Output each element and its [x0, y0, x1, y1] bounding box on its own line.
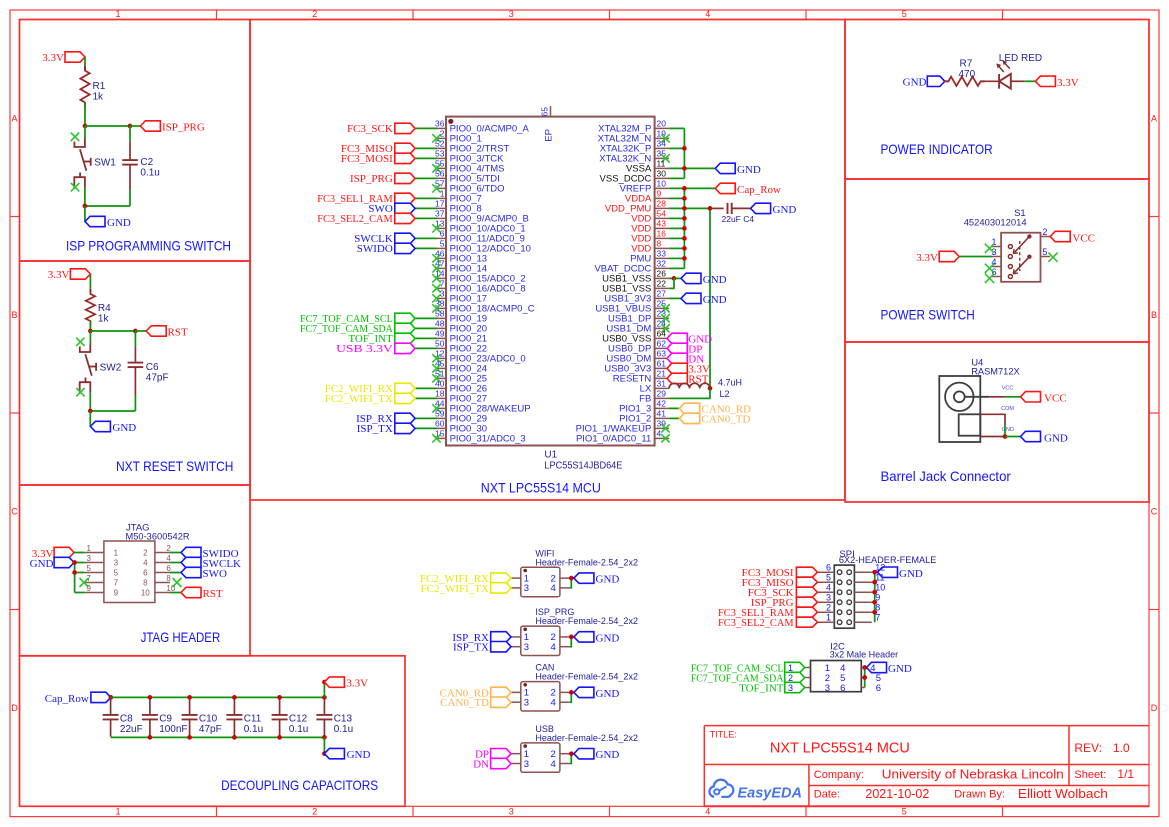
U1 pin 50 PIO0_22 [336, 339, 487, 356]
net flag ISP_PRG [140, 121, 204, 134]
svg-text:14: 14 [435, 269, 445, 279]
svg-text:GND: GND [112, 422, 136, 434]
S1 pin 1 [991, 237, 1012, 249]
U1 pin 28 VDD_PMU [605, 199, 797, 224]
wire GND to R7 [945, 80, 949, 82]
svg-text:3x2 Male Header: 3x2 Male Header [830, 650, 899, 661]
svg-text:Header-Female-2.54_2x2: Header-Female-2.54_2x2 [535, 672, 638, 682]
svg-text:EP: EP [544, 129, 555, 142]
I2C pin 3 TOF_INT [739, 682, 830, 694]
U1 pin 65 EP [540, 106, 555, 141]
svg-text:Header-Female-2.54_2x2: Header-Female-2.54_2x2 [535, 733, 638, 743]
U1 pin 52 PIO0_2/TRST [341, 139, 510, 156]
svg-text:1: 1 [87, 544, 92, 553]
U1 pin 56 PIO0_5/TDI [350, 169, 500, 186]
U1 pin 59 PIO0_29 [356, 409, 487, 426]
svg-text:51: 51 [435, 369, 445, 379]
svg-text:4: 4 [826, 583, 831, 593]
U1 pin 48 PIO0_20 [300, 319, 487, 336]
wire node to C6 node [90, 330, 135, 332]
svg-text:SW1: SW1 [94, 158, 116, 169]
svg-text:JTAG HEADER: JTAG HEADER [141, 629, 221, 645]
svg-text:22uF: 22uF [120, 724, 143, 735]
svg-text:100nF: 100nF [159, 724, 187, 735]
net flag VCC (power switch) [1050, 231, 1095, 244]
JTAG pin 4 (right) [143, 554, 171, 568]
net flag 3.3V (reset switch) [48, 269, 91, 281]
U1 pin 34 XTAL32K_P [600, 139, 687, 155]
svg-text:13: 13 [435, 219, 445, 229]
svg-text:4: 4 [705, 9, 710, 19]
svg-text:GND: GND [773, 204, 797, 216]
svg-text:GND: GND [596, 688, 620, 700]
svg-text:C9: C9 [159, 714, 172, 725]
WIFI pin 4 [560, 578, 571, 588]
wire cap top rail [111, 696, 326, 698]
U1 pin 1 PIO0_7 [317, 189, 482, 206]
svg-text:CAN0_TD: CAN0_TD [440, 697, 489, 709]
svg-text:4: 4 [705, 807, 710, 817]
resistor R4 [86, 289, 111, 326]
I2C pin 6 [840, 683, 881, 694]
svg-text:8: 8 [166, 574, 171, 583]
U1 pin 20 XTAL32M_P [598, 119, 684, 135]
svg-text:47: 47 [435, 259, 445, 269]
svg-text:POWER INDICATOR: POWER INDICATOR [881, 141, 993, 157]
WIFI pin 3 [421, 583, 521, 595]
svg-text:2: 2 [788, 673, 793, 683]
svg-text:56: 56 [435, 169, 445, 179]
JTAG pin 7 (left) [85, 574, 119, 588]
svg-text:53: 53 [435, 149, 445, 159]
JTAG pin 6 (right) [143, 564, 171, 578]
svg-text:0.1u: 0.1u [289, 724, 308, 735]
U1 pin 9 VDDA [625, 189, 687, 205]
net flag 3.3V (decoupling) [324, 677, 368, 690]
svg-text:SWIDO: SWIDO [357, 243, 393, 255]
U1 pin 55 PIO0_4/TMS [432, 159, 504, 175]
svg-text:FC2_WIFI_TX: FC2_WIFI_TX [325, 393, 393, 405]
svg-text:Barrel Jack Connector: Barrel Jack Connector [881, 468, 1012, 484]
U1 pin 24 USB1_DM [606, 319, 669, 335]
svg-text:16: 16 [657, 229, 667, 239]
junction JTAG pin5 [72, 570, 77, 575]
U1 pin 49 PIO0_21 [348, 329, 487, 346]
svg-text:SW2: SW2 [100, 363, 122, 374]
S1 pin 3 [991, 247, 1012, 259]
svg-text:University of Nebraska Lincoln: University of Nebraska Lincoln [882, 768, 1064, 782]
wire 3.3V to JTAG pin1 [74, 552, 85, 554]
junction Cap_Row [109, 695, 114, 700]
svg-text:Drawn By:: Drawn By: [954, 788, 1005, 800]
svg-text:1: 1 [826, 613, 831, 623]
connector CAN Header-Female-2.54_2x2 body [521, 663, 638, 711]
U1 pin 61 USB0_3V3 [604, 359, 710, 376]
CAN pin 1 [439, 687, 520, 699]
I2C pin 5 [840, 673, 881, 684]
svg-text:RST: RST [203, 588, 223, 600]
wire to 3.3V flag (decoupling) [323, 682, 325, 697]
resistor R1 [80, 66, 105, 108]
net flag 3.3V (ISP switch) [42, 52, 85, 64]
junction node C6 [133, 329, 138, 334]
SPI pin 7 [854, 613, 880, 623]
net flag GND (WIFI) [574, 573, 619, 586]
U1 pin 41 PIO1_2 [619, 409, 750, 426]
USB pin 2 [560, 753, 574, 755]
junction I2C pin4 [862, 665, 867, 670]
U1 pin 17 PIO0_8 [368, 199, 481, 216]
U1 pin 29 FB [639, 388, 710, 404]
WIFI pin 1 [420, 573, 521, 585]
svg-text:NXT RESET SWITCH: NXT RESET SWITCH [116, 458, 233, 474]
svg-text:2: 2 [312, 9, 317, 19]
wire C2 bottom rail [85, 205, 130, 207]
svg-text:36: 36 [435, 119, 445, 129]
net flag SWO [181, 567, 227, 580]
U1 pin 22 USB1_VSS [602, 278, 674, 294]
title block Sheet [1074, 767, 1134, 781]
U1 pin 37 PIO0_9/ACMP0_B [317, 209, 529, 226]
svg-text:GND: GND [596, 574, 620, 586]
svg-text:6X2-HEADER-FEMALE: 6X2-HEADER-FEMALE [839, 555, 937, 566]
junction GND decoupling [322, 751, 327, 756]
svg-text:GND: GND [596, 749, 620, 761]
connector JTAG M50-3600542R body [104, 523, 190, 603]
svg-text:ISP_PRG: ISP_PRG [162, 122, 205, 134]
SPI pin 12 [854, 563, 885, 575]
junction JTAG pin3 [72, 560, 77, 565]
svg-text:3: 3 [114, 559, 119, 568]
junction cap rail x189 [187, 695, 192, 700]
U1 pin 18 PIO0_27 [325, 389, 487, 406]
svg-text:C12: C12 [289, 714, 308, 725]
section box ISP PROGRAMMING SWITCH [20, 20, 251, 262]
U1 pin 53 PIO0_3/TCK [341, 149, 504, 166]
svg-text:REV:: REV: [1074, 741, 1102, 755]
net flag GND (I2C) [867, 662, 912, 675]
svg-text:0.1u: 0.1u [244, 724, 263, 735]
svg-text:TOF_INT: TOF_INT [739, 682, 784, 694]
wire to ISP_PRG flag [130, 125, 140, 127]
svg-text:1.0: 1.0 [1113, 741, 1130, 755]
svg-text:3: 3 [524, 642, 529, 653]
U1 pin 39 PIO1_1/WAKEUP [576, 419, 670, 435]
capacitor C9 100nF [142, 698, 188, 737]
I2C pin 2 FC7_TOF_CAM_SDA [691, 672, 830, 684]
WIFI pin 2 [560, 577, 574, 579]
junction node C2 [128, 124, 133, 129]
U1 pin 4 PIO1_0/ADC0_11 [576, 429, 670, 445]
SPI pin 2 FC3_SEL1_RAM [718, 603, 834, 619]
U1 pin 38 PIO0_18/ACMP0_C [432, 299, 534, 315]
svg-text:DECOUPLING CAPACITORS: DECOUPLING CAPACITORS [221, 777, 378, 793]
svg-text:4: 4 [657, 429, 662, 439]
JTAG pin 1 (left) [85, 544, 119, 558]
net flag GND (CAN) [574, 687, 619, 700]
svg-text:49: 49 [435, 329, 445, 339]
svg-text:22: 22 [657, 279, 667, 289]
svg-text:3: 3 [440, 289, 445, 299]
ISP_PRG pin 1 [452, 632, 520, 644]
svg-text:POWER SWITCH: POWER SWITCH [881, 307, 975, 323]
svg-text:5: 5 [87, 564, 92, 573]
svg-text:LED RED: LED RED [999, 53, 1042, 64]
svg-text:28: 28 [657, 199, 667, 209]
svg-text:21: 21 [657, 369, 667, 379]
S1 pin 5 [1027, 247, 1050, 259]
title block Company row [814, 768, 1064, 782]
svg-text:1: 1 [115, 9, 120, 19]
svg-text:GND: GND [30, 558, 54, 570]
connector ISP_PRG Header-Female-2.54_2x2 body [521, 607, 638, 655]
U1 pin 54 VDD [631, 209, 687, 225]
U1 pin 15 PIO0_31/ADC0_3 [432, 429, 525, 445]
junction cap rail x149 [148, 695, 153, 700]
svg-text:A: A [1151, 114, 1157, 124]
wire cap bottom rail [111, 736, 327, 738]
svg-text:3.3V: 3.3V [1057, 77, 1079, 89]
switch SW1 [71, 133, 117, 192]
svg-text:63: 63 [657, 349, 667, 359]
svg-text:2: 2 [143, 549, 148, 558]
svg-text:8: 8 [143, 579, 148, 588]
connector WIFI Header-Female-2.54_2x2 body [521, 548, 638, 596]
wire GND bus JTAG [74, 563, 85, 593]
junction USB GND [569, 751, 574, 756]
wire I2C GND bus [864, 668, 866, 688]
wire to GND flag [84, 206, 86, 222]
svg-text:GND: GND [888, 663, 912, 675]
svg-text:470: 470 [959, 69, 976, 80]
svg-text:Cap_Row: Cap_Row [737, 184, 781, 196]
svg-text:LPC55S14JBD64E: LPC55S14JBD64E [544, 461, 622, 472]
svg-text:GND: GND [347, 749, 371, 761]
svg-text:FC3_MOSI: FC3_MOSI [341, 153, 393, 165]
wire U4 COM pin [980, 414, 1005, 425]
svg-text:34: 34 [657, 139, 667, 149]
svg-text:47pF: 47pF [146, 373, 169, 384]
USB pin 1 [475, 749, 521, 761]
svg-text:C8: C8 [120, 714, 133, 725]
SPI pin 10 [854, 583, 885, 595]
U1 pin 57 PIO0_6/TDO [432, 179, 504, 195]
svg-text:FC3_SEL2_CAM: FC3_SEL2_CAM [317, 213, 393, 225]
U1 pin 47 PIO0_14 [432, 259, 487, 275]
svg-text:29: 29 [657, 389, 667, 399]
U1 pin 43 VDD [631, 219, 687, 235]
U1 pin 44 PIO0_28/WAKEUP [432, 399, 530, 415]
svg-text:9: 9 [114, 589, 119, 598]
section box Barrel Jack Connector [845, 342, 1149, 502]
wire 3.3V to R1 [84, 57, 86, 71]
svg-text:11: 11 [657, 159, 666, 169]
svg-text:B: B [11, 310, 17, 320]
svg-text:3: 3 [524, 759, 529, 770]
CAN pin 4 [560, 692, 571, 702]
svg-text:4: 4 [551, 642, 556, 653]
U1 pin 42 PIO1_3 [619, 399, 751, 416]
svg-text:3: 3 [87, 554, 92, 563]
wire R1 to node [84, 103, 86, 127]
svg-text:6: 6 [826, 563, 831, 573]
svg-text:B: B [1151, 310, 1157, 320]
svg-text:6: 6 [143, 569, 148, 578]
section box POWER INDICATOR [845, 20, 1149, 180]
svg-text:31: 31 [657, 379, 667, 389]
I2C pin 4 [840, 663, 865, 674]
wire VDD_PMU to FB vertical [709, 208, 711, 388]
SPI pin 6 FC3_MOSI [742, 563, 835, 579]
junction CAN GND [569, 690, 574, 695]
svg-text:10: 10 [657, 179, 667, 189]
net flag GND (SPI) [878, 567, 923, 580]
svg-text:Cap_Row: Cap_Row [45, 693, 89, 705]
wire R4 to node [89, 321, 91, 331]
svg-text:32: 32 [657, 259, 667, 269]
S1 pin 4 [991, 257, 1012, 269]
wire node to C2 node [85, 125, 130, 127]
svg-text:PIO0_31/ADC0_3: PIO0_31/ADC0_3 [450, 434, 526, 445]
U1 pin 14 PIO0_15/ADC0_2 [432, 269, 525, 285]
svg-text:C: C [1151, 507, 1158, 517]
U1 pin 10 VREFP [620, 179, 781, 196]
svg-text:CAN0_TD: CAN0_TD [702, 413, 751, 425]
section box NXT LPC55S14 MCU [250, 20, 845, 501]
title block REV [1074, 741, 1130, 755]
svg-text:VCC: VCC [1072, 232, 1095, 244]
section box DECOUPLING CAPACITORS [20, 656, 406, 807]
svg-text:1/1: 1/1 [1117, 767, 1134, 781]
SPI pin 4 FC3_SCK [748, 583, 835, 599]
JTAG pin 8 (right) [143, 574, 171, 588]
U1 pin 63 USB0_DM [606, 349, 704, 366]
svg-text:3: 3 [509, 9, 514, 19]
net flag RST [146, 326, 188, 339]
svg-text:VCC: VCC [1002, 386, 1014, 392]
U1 pin 25 USB1_VBUS [595, 299, 669, 315]
op-amp U1 body LPC55S14JBD64E [446, 117, 655, 472]
svg-text:52: 52 [435, 139, 445, 149]
net flag Cap_Row [45, 692, 111, 705]
U1 pin 32 VBAT_DCDC [594, 259, 684, 275]
svg-text:6: 6 [840, 683, 845, 694]
SPI pin 11 [854, 573, 884, 585]
net flag 3.3V (JTAG) [32, 547, 74, 560]
svg-text:3: 3 [524, 583, 529, 594]
SPI pin 5 FC3_MISO [742, 573, 835, 589]
svg-text:RASM712X: RASM712X [971, 367, 1020, 378]
net flag 3.3V (power switch) [916, 251, 959, 264]
svg-text:27: 27 [657, 289, 667, 299]
U1 pin 31 LX [640, 378, 742, 399]
USB pin 4 [560, 754, 571, 764]
svg-text:C10: C10 [199, 714, 218, 725]
U1 pin 7 PIO0_16/ADC0_8 [432, 279, 525, 295]
net flag VCC (barrel jack) [1021, 392, 1067, 405]
svg-text:D: D [11, 703, 18, 713]
JTAG pin 9 (left) [85, 584, 119, 598]
U1 pin 26 USB1_VSS [602, 269, 727, 286]
U1 pin 12 PIO0_23/ADC0_0 [432, 349, 525, 365]
wire U4 GND pin [980, 436, 1005, 438]
svg-text:Company:: Company: [814, 769, 864, 781]
svg-text:452403012014: 452403012014 [964, 218, 1027, 229]
svg-text:1: 1 [440, 189, 445, 199]
svg-text:C13: C13 [334, 714, 353, 725]
wire SPI GND bus [874, 572, 876, 622]
svg-text:5: 5 [114, 569, 119, 578]
net flag GND (power indicator) [903, 76, 945, 88]
svg-text:50: 50 [435, 339, 445, 349]
no-connect S1 pin 4 [985, 264, 994, 273]
EasyEDA logo [709, 780, 802, 802]
svg-text:26: 26 [657, 269, 667, 279]
SPI pin 3 ISP_PRG [751, 593, 834, 609]
svg-text:C2: C2 [140, 157, 153, 168]
svg-text:4: 4 [551, 698, 556, 709]
svg-text:M50-3600542R: M50-3600542R [126, 532, 190, 543]
junction cap rail x324 [322, 695, 327, 700]
svg-text:PIO1_0/ADC0_11: PIO1_0/ADC0_11 [576, 434, 651, 445]
svg-text:62: 62 [657, 339, 667, 349]
wire R7 to LED [981, 80, 1000, 82]
svg-text:38: 38 [435, 299, 445, 309]
svg-text:R4: R4 [98, 303, 111, 314]
svg-text:6: 6 [876, 683, 881, 694]
wire GND to flag (barrel jack) [1005, 436, 1021, 438]
svg-text:0.1u: 0.1u [140, 168, 159, 179]
svg-text:33: 33 [657, 249, 667, 259]
U1 pin 21 RESETN [613, 369, 709, 386]
svg-text:2021-10-02: 2021-10-02 [865, 787, 929, 801]
U1 pin 23 USB1_DP [608, 309, 670, 325]
svg-text:C11: C11 [244, 714, 262, 725]
svg-text:3.3V: 3.3V [346, 678, 368, 690]
section box JTAG HEADER [20, 485, 251, 656]
wire VDD bus segment 1 [683, 128, 685, 178]
svg-text:1: 1 [788, 663, 793, 673]
U1 pin 2 PIO0_1 [432, 129, 482, 145]
svg-text:Header-Female-2.54_2x2: Header-Female-2.54_2x2 [535, 557, 638, 567]
U1 pin 19 XTAL32M_N [598, 129, 670, 145]
svg-text:7: 7 [875, 613, 880, 623]
CAN pin 2 [560, 691, 574, 693]
svg-text:VCC: VCC [1044, 393, 1067, 405]
svg-text:NXT LPC55S14 MCU: NXT LPC55S14 MCU [481, 480, 601, 496]
U1 pin 13 PIO0_10/ADC0_1 [432, 219, 525, 235]
svg-text:57: 57 [435, 179, 445, 189]
title block Date row [814, 787, 1108, 801]
connector I2C 3x2 Male Header body [811, 642, 899, 692]
svg-text:48: 48 [435, 319, 445, 329]
wire C6 bottom rail [90, 410, 135, 412]
svg-text:45: 45 [435, 359, 445, 369]
CAN pin 3 [440, 697, 521, 709]
capacitor C10 47pF [182, 698, 222, 737]
svg-text:U1: U1 [544, 450, 557, 461]
junction I2C pin5 [862, 675, 867, 680]
svg-text:2: 2 [440, 129, 445, 139]
net flag GND (ISP switch) [85, 216, 131, 229]
svg-text:20: 20 [657, 119, 667, 129]
svg-text:GND: GND [703, 294, 727, 306]
title block frame [704, 726, 1149, 807]
U1 pin 46 PIO0_13 [432, 249, 487, 265]
svg-text:A: A [11, 114, 17, 124]
svg-text:3.3V: 3.3V [48, 269, 70, 281]
no-connect S1 pin 6 [985, 274, 994, 283]
